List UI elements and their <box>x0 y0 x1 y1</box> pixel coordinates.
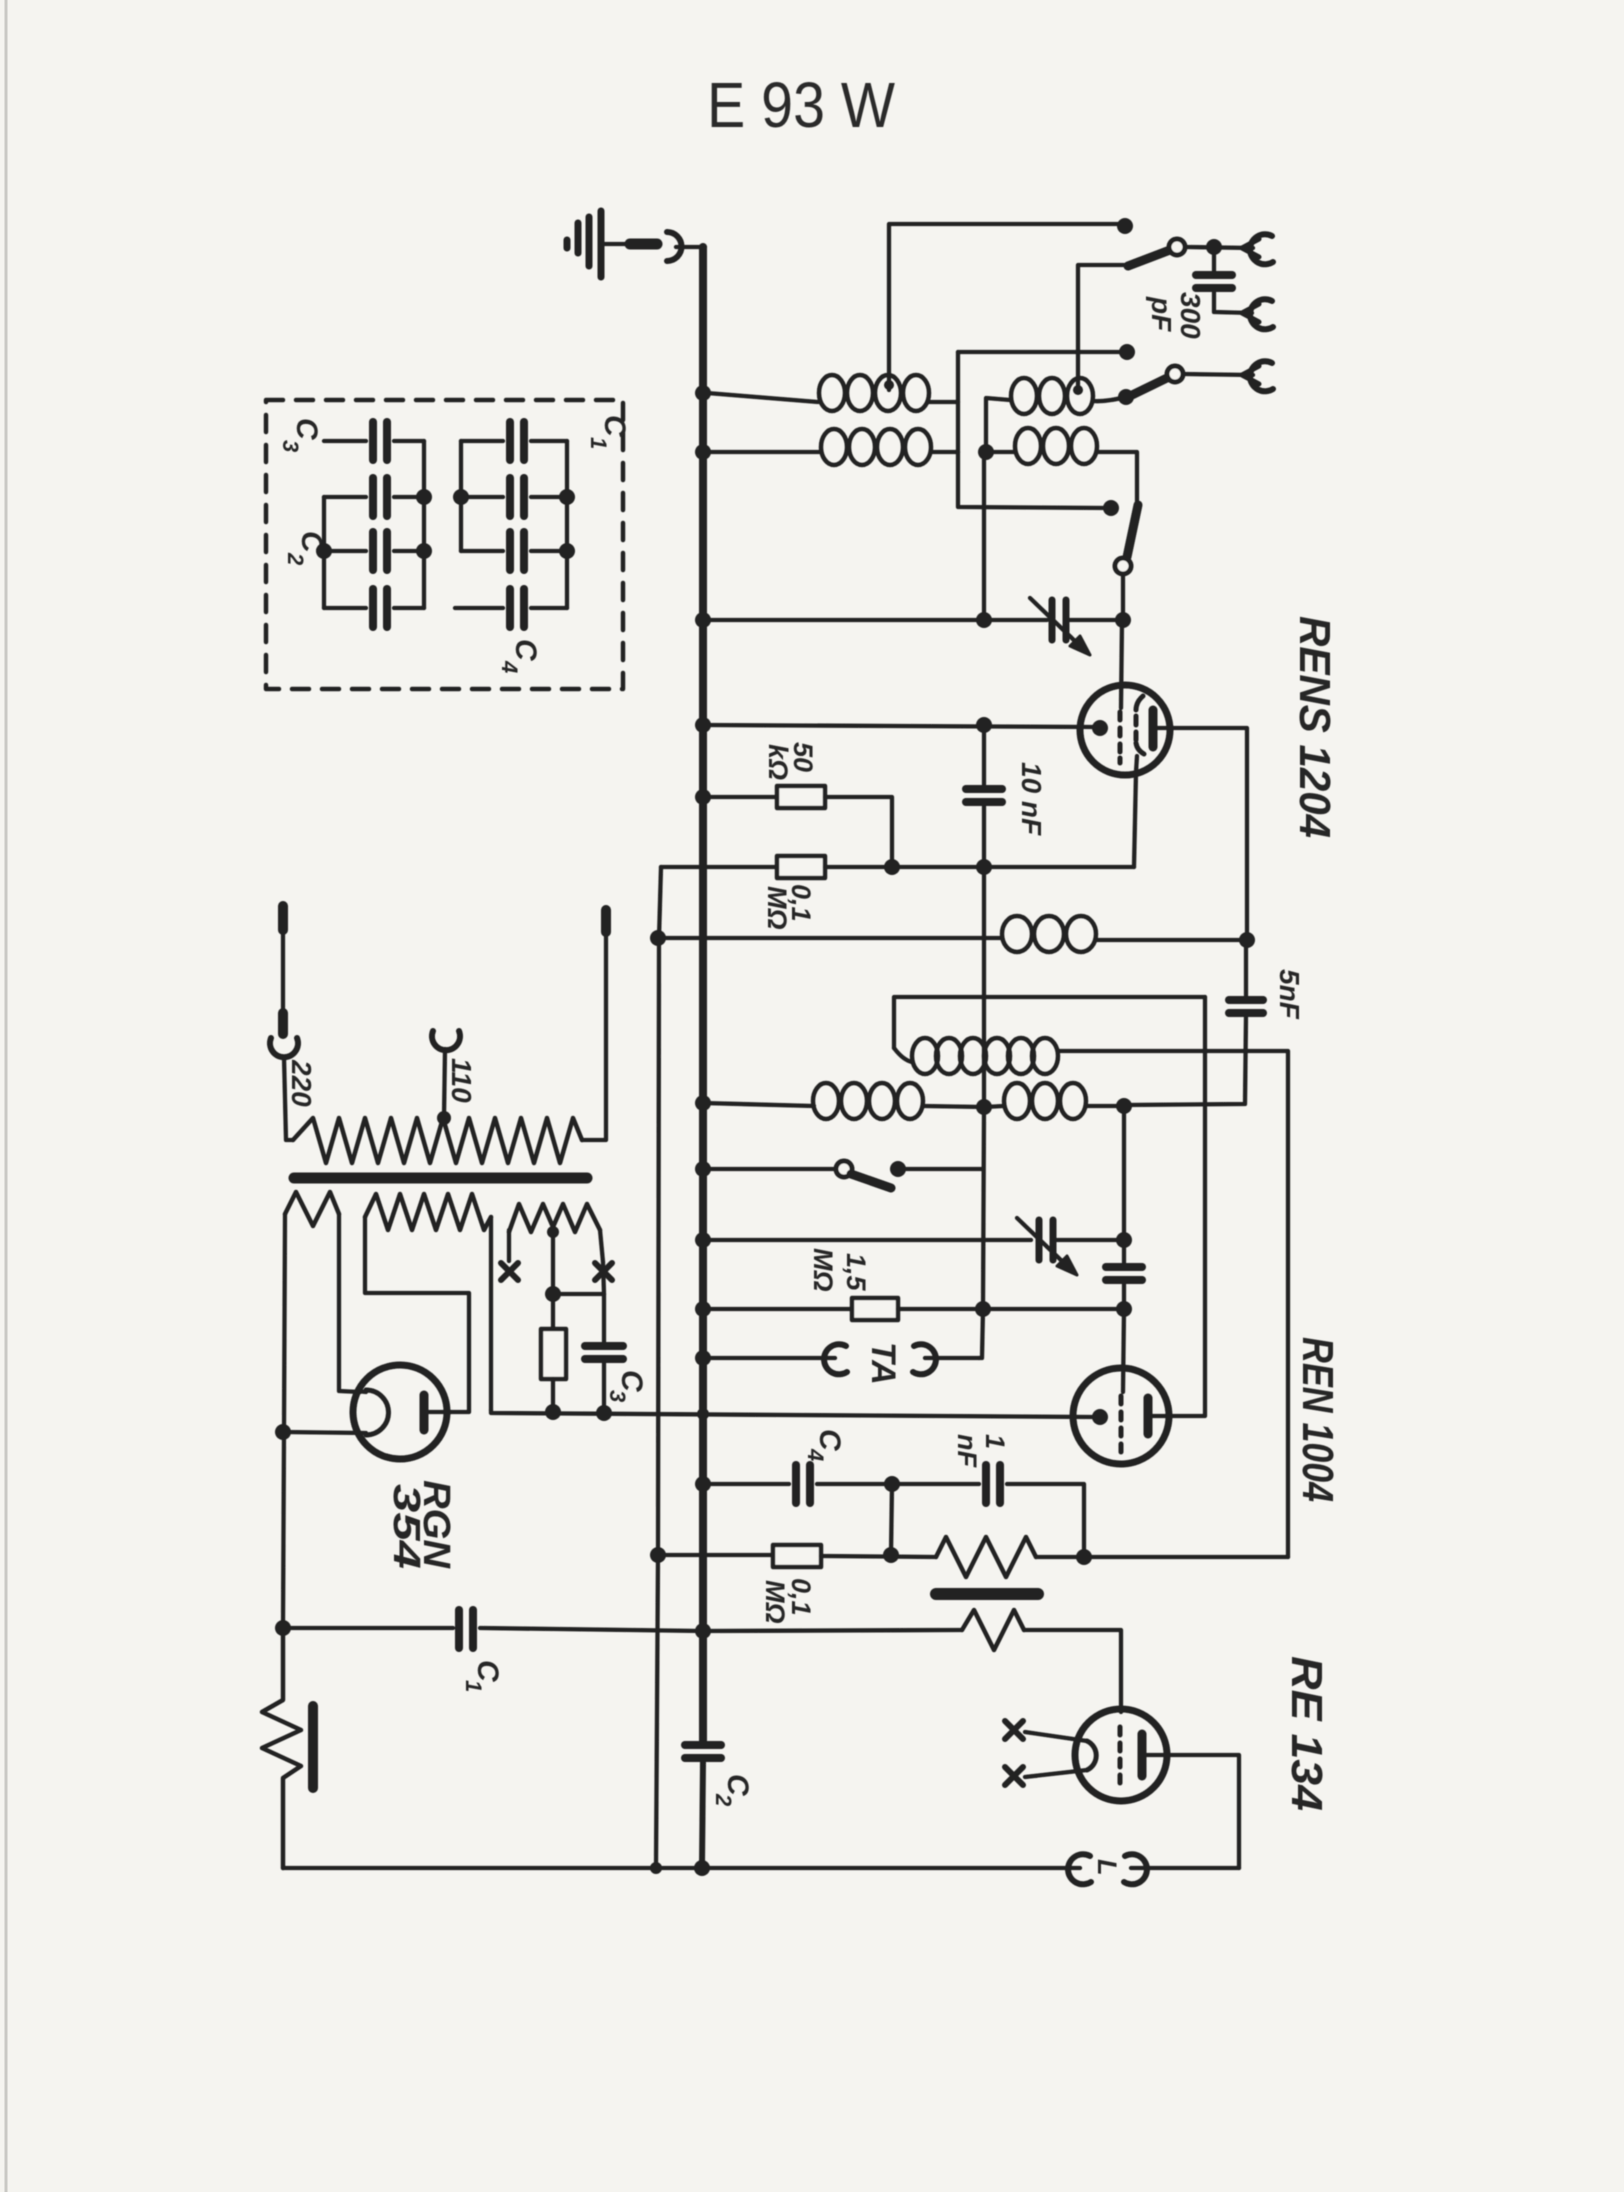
wire winding a right leg to tube V4 <box>339 1214 360 1392</box>
svg-text:MΩ: MΩ <box>808 1248 838 1292</box>
node V2 grid dot <box>1092 1409 1108 1425</box>
tube V1 RENS 1204 envelope <box>1080 685 1170 775</box>
svg-text:1: 1 <box>586 437 611 449</box>
secondary winding a (rectifier filament) <box>285 1192 339 1226</box>
coil L5 <box>1002 916 1096 952</box>
node bus y1413 <box>697 1408 709 1420</box>
wire grid-return row y1413 <box>491 1410 1093 1417</box>
transformer core <box>294 1173 587 1184</box>
node bus y1631 <box>695 1623 711 1639</box>
wire socket to primary <box>284 1057 293 1140</box>
wire screen row y725 <box>703 725 1094 727</box>
wire center-tap column x553 <box>551 1227 555 1329</box>
label 220 <box>286 1059 317 1107</box>
wire feedback rectangle y997 <box>894 997 1205 1048</box>
wire grid resistor row y1556 <box>658 1553 773 1557</box>
resistor R6 (zigzag grid leak) <box>936 1537 1036 1577</box>
resistor R5 0,1 MOhm <box>773 1545 821 1567</box>
wire left column x658 <box>656 867 661 1868</box>
wire coil L3 right end <box>931 450 958 454</box>
wire V4 anode lead <box>428 1410 451 1414</box>
svg-text:pF: pF <box>1146 296 1177 332</box>
wire anode riser V2 <box>1172 997 1205 1416</box>
wire varcap row y1240 <box>703 1238 1031 1242</box>
wire switch row y1169 <box>703 1167 836 1171</box>
scanner edge artifact <box>5 0 8 2192</box>
heater X mark left leg <box>501 1263 518 1280</box>
node V1 screen grid dot <box>1092 720 1108 736</box>
tube V4 anode bar <box>420 1395 429 1430</box>
label 1 nF <box>952 1434 1010 1468</box>
node switch4 contact <box>890 1161 906 1177</box>
wire ground to antenna plug <box>604 242 630 246</box>
antenna plug pin <box>630 239 657 250</box>
wire 5nF legs <box>1244 940 1248 998</box>
svg-text:C: C <box>598 415 631 438</box>
wire R1 to drop <box>825 797 892 863</box>
svg-text:1: 1 <box>461 1680 486 1692</box>
wire winding b left leg / anode loop <box>365 1217 469 1412</box>
svg-text:2: 2 <box>711 1793 736 1807</box>
wire link y1484 to y1555 <box>891 1484 892 1555</box>
node feed junction <box>978 444 994 460</box>
wire pivot2 to jack E <box>1183 374 1253 375</box>
tube V3 filament arc <box>1087 1741 1096 1770</box>
svg-text:4: 4 <box>497 660 522 673</box>
node coil L1 tap <box>884 380 894 390</box>
label C3 <box>605 1370 648 1402</box>
label RGN 354 <box>385 1480 457 1570</box>
svg-text:C: C <box>290 418 323 441</box>
mains pin right <box>601 910 611 932</box>
wire X to filament top <box>1025 1732 1087 1741</box>
node 300pF top <box>1206 239 1222 255</box>
wire output row y1484 from bus <box>703 1482 789 1486</box>
svg-text:RE 134: RE 134 <box>1282 1656 1331 1811</box>
wire detector row y938 left <box>659 936 1002 940</box>
switch pivot S1 <box>1169 239 1185 255</box>
dashed block box <box>266 400 623 689</box>
capacitor grid C (below CV2) <box>1106 1263 1142 1271</box>
wire second contact line <box>958 350 1127 354</box>
svg-text:3: 3 <box>605 1390 630 1402</box>
speaker core bar <box>936 1588 1038 1600</box>
tube V1 filament <box>1136 696 1144 754</box>
block capacitor a2 <box>324 478 424 516</box>
block capacitor b1 <box>461 422 567 460</box>
label C4 (block) <box>497 639 542 673</box>
wire CV2 to grid node <box>1057 1238 1124 1242</box>
node bus y1484 <box>695 1476 711 1492</box>
node y1557 junction <box>1076 1549 1092 1565</box>
node grid node y1106 <box>1116 1098 1132 1114</box>
svg-text:220: 220 <box>286 1059 317 1107</box>
filter choke (zigzag) <box>262 1628 301 1868</box>
jack A1 crescent <box>1250 234 1273 264</box>
label C2 <box>711 1774 754 1807</box>
label TA <box>864 1342 902 1385</box>
wire coil L8 to grid node <box>1086 1104 1124 1108</box>
jack A2 fork <box>1242 304 1259 322</box>
jack L right crescent <box>1124 1854 1147 1884</box>
tube V1 anode bar <box>1149 710 1158 747</box>
label 50 kOhm <box>763 742 818 780</box>
wire grid-leak row y1309 <box>703 1307 852 1311</box>
node bus y452 <box>695 444 711 460</box>
wire winding a left leg <box>283 1214 285 1628</box>
block capacitor b2 <box>461 478 567 516</box>
capacitor 5 nF <box>1229 996 1263 1004</box>
svg-text:MΩ: MΩ <box>760 1580 790 1624</box>
wire arm1 tip to coil L2 tap <box>1078 265 1124 385</box>
node y620 right <box>1115 612 1131 628</box>
node y1107 junction <box>976 1099 992 1115</box>
node R1-R2 junction <box>884 859 900 875</box>
resistor R4 hum balance <box>541 1329 566 1379</box>
jack A2 crescent <box>1250 299 1273 329</box>
wire grid drop x1124 <box>1122 1106 1126 1240</box>
wire X to filament bottom <box>1025 1770 1087 1777</box>
block left net right rail <box>422 441 426 608</box>
node y620 riser junction <box>976 612 992 628</box>
svg-text:354: 354 <box>385 1484 427 1569</box>
bus lower segment below C2 <box>702 1760 703 1868</box>
node bus y620 <box>695 612 711 628</box>
wire coil L1 to vertical riser <box>929 352 958 402</box>
svg-text:L: L <box>1092 1859 1122 1876</box>
wire CV1 to node <box>1070 618 1123 622</box>
coil L1 (antenna coil) <box>819 375 929 411</box>
block right net left rail <box>459 441 463 551</box>
coil L7 <box>813 1083 923 1119</box>
wire 300pF to jack A2 <box>1214 291 1252 313</box>
wire V1 anode to edge <box>1157 726 1170 730</box>
svg-text:1,5: 1,5 <box>841 1253 871 1292</box>
tube V3 anode bar <box>1138 1734 1147 1776</box>
svg-text:5nF: 5nF <box>1274 969 1305 1020</box>
wire pivot1 to jack A1 <box>1185 247 1253 248</box>
wire V1 filament lead down <box>1134 756 1137 867</box>
wire C1 row y1628 <box>283 1626 453 1630</box>
node bus y1240 <box>695 1232 711 1248</box>
wire contact to coil L2 end <box>1093 397 1126 401</box>
node y1240 right <box>1116 1232 1132 1248</box>
variable capacitor CV2 arrow <box>1017 1218 1064 1263</box>
label 5 nF <box>1274 969 1305 1020</box>
wire top contact line <box>889 224 1125 390</box>
wire zigzag to tube V3 top <box>1024 1630 1121 1712</box>
wire row y1105 from bus <box>703 1103 814 1106</box>
wire R2 to cathode corner <box>825 865 1134 869</box>
svg-text:RENS 1204: RENS 1204 <box>1290 616 1339 838</box>
wire contact to riser <box>898 1167 983 1171</box>
label R2 0,1 MOhm <box>762 884 816 930</box>
jack E fork <box>1242 366 1259 384</box>
switch arm S4 <box>851 1174 891 1188</box>
switch arm S1 <box>1128 250 1170 266</box>
tube V4 RGN 354 envelope <box>353 1365 447 1459</box>
wire 1nF to corner <box>1007 1484 1084 1557</box>
block right net right rail <box>565 441 569 608</box>
bus (main vertical ground rail) <box>699 247 707 1742</box>
wire V3 anode lead <box>1146 1755 1239 1868</box>
heater X mark V3 upper <box>1005 1721 1023 1739</box>
block capacitor a1 <box>324 422 424 460</box>
variable capacitor CV1 arrow <box>1030 598 1077 643</box>
wire V4 filament bottom lead <box>283 1432 366 1433</box>
wire node down to tube V1 grid top <box>1121 620 1122 708</box>
wire x553 to x604 <box>553 1292 604 1296</box>
svg-text:1: 1 <box>980 1434 1010 1449</box>
node bus y1309 <box>695 1301 711 1317</box>
coil L3 <box>821 429 931 465</box>
switch pivot S2 <box>1167 366 1183 382</box>
wire zigzag to right rail <box>1036 1555 1288 1559</box>
wire bus to resistor 50k <box>703 795 777 799</box>
node arm2 contact on coil L2 <box>1118 389 1134 405</box>
tube V3 RE 134 envelope <box>1075 1709 1167 1801</box>
label 110 <box>446 1058 477 1103</box>
label 10 nF <box>1016 762 1047 836</box>
capacitor C4 (coupling) <box>792 1465 800 1503</box>
wire grid node into tube V2 <box>1123 1309 1124 1392</box>
node anode/coil junction <box>1239 932 1255 948</box>
node bus y393 <box>695 385 711 401</box>
capacitor C1 <box>455 1610 463 1648</box>
wire primary right to pin <box>582 930 606 1140</box>
wire R4 bottom lead <box>551 1379 555 1412</box>
node x283 y1628 <box>275 1620 291 1636</box>
node 10nF bottom junction <box>976 859 992 875</box>
block capacitor b3 <box>461 532 567 570</box>
wire junction to coil L4 <box>986 450 1014 454</box>
tube V3 grid (dashed) <box>1118 1727 1123 1783</box>
wire bus to coil L3 <box>707 450 820 454</box>
wire winding c right leg <box>600 1230 603 1262</box>
tube V2 grid (dashed) <box>1119 1396 1124 1452</box>
secondary winding b (HV) <box>365 1194 491 1230</box>
svg-text:MΩ: MΩ <box>762 886 792 930</box>
wire C4 to 1nF <box>817 1482 979 1486</box>
wire corner to resistor R2 row <box>661 865 777 869</box>
resistor R1 50 kOhm <box>777 786 825 808</box>
node x553 y1294 <box>545 1286 561 1302</box>
tap 110 socket crescent <box>432 1031 460 1050</box>
node riser y1309 <box>975 1301 991 1317</box>
tube V2 REN 1004 envelope <box>1073 1368 1169 1464</box>
wire winding c left leg <box>507 1230 511 1261</box>
node bus y1103 <box>695 1095 711 1111</box>
node y938 left end <box>650 930 666 946</box>
node y1555 link <box>883 1547 899 1563</box>
choke core bar <box>308 1706 318 1788</box>
node tap 110 <box>437 1111 451 1125</box>
wire feed to coil L2 <box>986 398 1010 452</box>
wire TA row y1358 <box>703 1356 835 1360</box>
label C1 <box>461 1660 504 1692</box>
label C1 (block) <box>586 415 631 449</box>
node bus bottom y1868 <box>694 1860 710 1876</box>
svg-text:REN 1004: REN 1004 <box>1293 1337 1342 1502</box>
wire pivot3 down to tuning node <box>1121 574 1125 616</box>
svg-text:300: 300 <box>1175 292 1206 339</box>
variable capacitor CV1 plates <box>1049 600 1056 640</box>
svg-text:2: 2 <box>283 552 308 566</box>
wire 10nF legs <box>982 725 986 787</box>
ground (earth) symbol, rotated pointing left <box>567 211 601 277</box>
coil L4 <box>1015 428 1097 464</box>
svg-text:4: 4 <box>803 1448 828 1461</box>
label RENS 1204 <box>1290 616 1339 838</box>
jack L left crescent <box>1068 1854 1091 1884</box>
wire coil L6 right to right rail <box>1058 1051 1288 1557</box>
node coil L2 tap <box>1073 385 1083 395</box>
node bus y1169 <box>695 1161 711 1177</box>
label R5 0,1 MOhm <box>760 1578 816 1624</box>
wire junction to coil L8 <box>984 1106 1004 1107</box>
wire TA to riser <box>925 1356 979 1360</box>
wire coil L5 to anode node <box>1096 938 1247 942</box>
node switch2 contact <box>1119 344 1135 360</box>
tube V4 filament arc <box>366 1390 389 1435</box>
wire V2 anode lead <box>1152 1414 1172 1418</box>
capacitor C3 <box>585 1342 623 1350</box>
node switch3 contact <box>1103 500 1119 516</box>
mains socket 220 crescent <box>270 1038 298 1057</box>
wire riser down to lower contact line <box>958 402 1111 508</box>
jack TA right crescent <box>913 1344 936 1374</box>
label R3 1,5 MOhm <box>808 1248 871 1292</box>
label C3 (block) <box>278 418 323 452</box>
svg-text:E 93 W: E 93 W <box>707 69 896 141</box>
jack E crescent <box>1250 361 1273 391</box>
variable capacitor CV2 plates <box>1036 1220 1043 1260</box>
tap 110 stem <box>444 1049 445 1118</box>
svg-text:nF: nF <box>952 1434 982 1468</box>
resistor R2 0,1 MOhm <box>777 856 825 878</box>
wire tuning row y620 <box>703 618 1047 622</box>
node hum-resistor bottom <box>545 1404 561 1420</box>
label C2 (block) <box>283 531 328 566</box>
wire V4 filament top lead <box>357 1391 366 1392</box>
node bus y1358 <box>695 1350 711 1366</box>
wire jack L to anode rail <box>1131 1866 1239 1870</box>
wire R3 to grid node <box>898 1307 1124 1311</box>
coil L6 (big feedback coil) <box>894 1048 912 1062</box>
node block a rail <box>416 489 432 505</box>
wire bottom row y1868 <box>283 1866 1080 1870</box>
tube V2 anode bar <box>1144 1398 1153 1434</box>
svg-text:10 nF: 10 nF <box>1016 762 1047 836</box>
jack A1 fork <box>1242 239 1259 257</box>
resistor R7 (speaker winding zigzag) <box>962 1610 1024 1650</box>
wire coil L4 to switch arm S3 <box>1097 452 1137 503</box>
transformer primary winding (zigzag) <box>293 1118 582 1163</box>
wire C1 to bus <box>480 1628 703 1631</box>
capacitor C2 (in bus) <box>685 1741 721 1749</box>
node x658 y1555 <box>650 1547 666 1563</box>
block capacitor a4 <box>324 589 424 627</box>
node y725 riser <box>976 717 992 733</box>
switch pivot S3 <box>1115 558 1131 574</box>
tube V1 control grid (dashed) <box>1118 712 1123 763</box>
coil L8 <box>1004 1083 1086 1119</box>
node bus y797 <box>695 789 711 805</box>
label C4 <box>803 1429 846 1461</box>
wire plug to bus corner <box>676 245 705 249</box>
svg-text:TA: TA <box>864 1342 902 1385</box>
svg-text:3: 3 <box>278 440 303 452</box>
node block b rails <box>453 489 469 505</box>
mains plug 220V pin <box>278 906 288 930</box>
svg-text:C: C <box>509 639 542 662</box>
wire V1 anode loop to 5nF <box>1170 728 1247 938</box>
wire coil L7 to junction <box>923 1106 984 1107</box>
node x283 y1432 <box>275 1424 291 1440</box>
node switch1 contact <box>1117 218 1133 234</box>
wire grid cap legs <box>1122 1240 1126 1265</box>
antenna socket crescent <box>667 232 682 261</box>
heater X mark V3 lower <box>1005 1767 1023 1785</box>
wire output row y1630 from bus <box>703 1630 962 1631</box>
capacitor 10 nF <box>966 785 1002 793</box>
wire C3 bottom lead <box>602 1361 606 1413</box>
node y1484 junction <box>884 1476 900 1492</box>
wire R5 to zigzag <box>821 1556 936 1557</box>
coil L2 <box>1011 378 1093 414</box>
switch arm S3 <box>1127 505 1138 557</box>
block capacitor b4 <box>455 589 567 627</box>
secondary winding c (output filament) <box>509 1204 600 1232</box>
wire bus to coil L1 <box>707 393 818 402</box>
resistor R3 1,5 MOhm <box>852 1298 898 1320</box>
switch pivot S4 <box>836 1161 852 1177</box>
node center-tap blob <box>547 1226 559 1238</box>
label REN 1004 <box>1293 1337 1342 1502</box>
node C3 bottom <box>596 1405 612 1421</box>
jack TA left crescent <box>824 1344 847 1374</box>
heater X mark right leg <box>595 1263 612 1280</box>
svg-text:kΩ: kΩ <box>763 744 793 780</box>
label 300 pF <box>1146 292 1206 339</box>
label L <box>1092 1859 1122 1876</box>
node grid y1309 <box>1116 1301 1132 1317</box>
capacitor 1 nF <box>982 1465 990 1503</box>
node bus y725 <box>695 717 711 733</box>
wire heater winding right leg down <box>489 1217 493 1410</box>
block capacitor a3 <box>324 532 424 570</box>
switch arm S2 <box>1130 378 1167 396</box>
label RE 134 <box>1282 1656 1331 1811</box>
capacitor 300 pF <box>1196 271 1232 279</box>
block left net left rail <box>322 497 326 608</box>
wire 300pF leg upper <box>1212 251 1216 271</box>
wire long riser x984 <box>982 452 986 620</box>
wire winding c right leg lower stub <box>603 1262 604 1342</box>
svg-text:110: 110 <box>446 1058 477 1103</box>
node x656 y1868 <box>650 1862 662 1874</box>
